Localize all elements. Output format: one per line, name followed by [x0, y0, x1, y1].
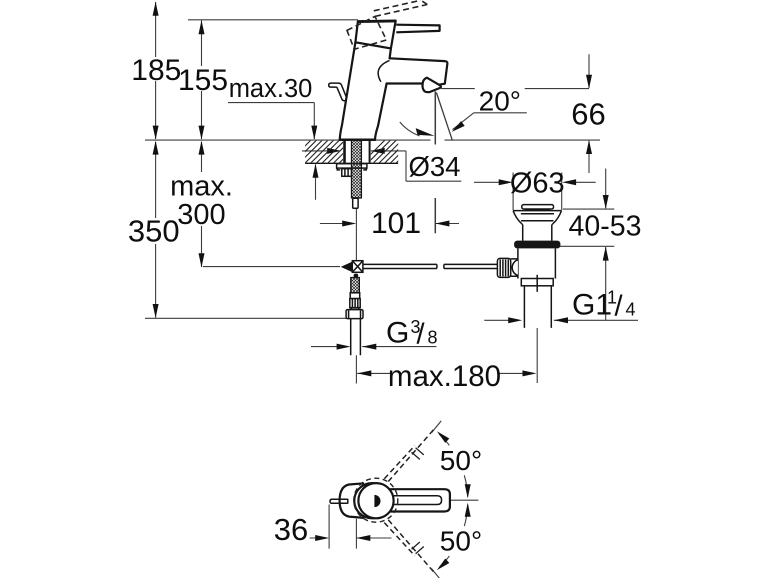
svg-text:/: /: [615, 291, 624, 323]
svg-text:4: 4: [626, 300, 636, 320]
svg-text:20°: 20°: [479, 85, 521, 116]
svg-text:max.30: max.30: [229, 75, 313, 103]
svg-text:/: /: [417, 319, 426, 351]
svg-text:8: 8: [428, 328, 438, 348]
svg-text:66: 66: [571, 97, 605, 132]
svg-text:50°: 50°: [440, 445, 482, 476]
svg-text:40-53: 40-53: [569, 211, 642, 243]
svg-text:36: 36: [274, 512, 308, 547]
svg-text:300: 300: [177, 199, 225, 231]
svg-text:max.180: max.180: [388, 360, 501, 393]
svg-text:185: 185: [131, 54, 181, 87]
svg-text:101: 101: [371, 207, 421, 240]
svg-text:350: 350: [128, 214, 180, 249]
svg-text:155: 155: [178, 64, 228, 97]
svg-text:G: G: [386, 317, 409, 350]
svg-text:Ø34: Ø34: [409, 151, 461, 182]
svg-text:Ø63: Ø63: [510, 168, 565, 200]
svg-text:50°: 50°: [440, 525, 482, 556]
svg-text:max.: max.: [170, 171, 233, 203]
